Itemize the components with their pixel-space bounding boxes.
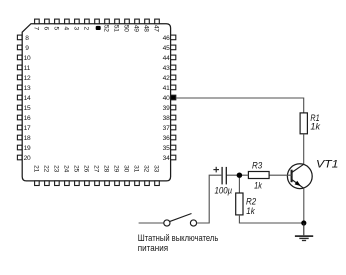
svg-text:питания: питания xyxy=(138,243,168,253)
svg-text:Штатный выключатель: Штатный выключатель xyxy=(138,233,219,243)
wire: open stub to switch xyxy=(139,222,164,224)
resistor R2 xyxy=(236,193,243,215)
svg-text:30: 30 xyxy=(123,165,130,172)
svg-text:46: 46 xyxy=(163,35,170,42)
bottom pin row: pins 21-33 xyxy=(35,181,160,186)
svg-text:36: 36 xyxy=(163,135,170,142)
svg-text:25: 25 xyxy=(73,165,80,172)
pin 1 index mark xyxy=(96,26,101,30)
pin numbers xyxy=(24,25,171,173)
svg-text:17: 17 xyxy=(24,125,31,132)
wire: node A down to R2 xyxy=(238,178,240,193)
svg-text:41: 41 xyxy=(163,85,170,92)
switch SA1 left contact xyxy=(164,220,170,226)
R3 labels xyxy=(252,160,263,191)
switch SA1 right contact xyxy=(190,220,196,226)
resistor R1 xyxy=(300,113,307,134)
svg-text:23: 23 xyxy=(53,165,60,172)
R1 value labels xyxy=(310,113,321,133)
IC U1 body (52-pin QFP outline) xyxy=(22,24,170,181)
svg-text:37: 37 xyxy=(163,125,170,132)
svg-text:13: 13 xyxy=(24,85,31,92)
svg-text:49: 49 xyxy=(133,25,140,32)
wire: R1 bottom to VT1 collector xyxy=(303,134,305,164)
svg-text:31: 31 xyxy=(133,165,140,172)
svg-text:21: 21 xyxy=(33,165,40,172)
svg-text:2: 2 xyxy=(83,27,90,31)
svg-text:10: 10 xyxy=(24,55,31,62)
wire: switch to capacitor rail xyxy=(197,175,223,223)
wire: pin 40 to R1 top xyxy=(176,98,304,113)
svg-text:VT1: VT1 xyxy=(316,159,339,171)
svg-text:1k: 1k xyxy=(246,206,255,217)
svg-text:14: 14 xyxy=(24,95,31,102)
svg-text:29: 29 xyxy=(113,165,120,172)
left pin column: pins 8-20 xyxy=(17,35,22,160)
svg-text:12: 12 xyxy=(24,75,31,82)
svg-text:19: 19 xyxy=(24,145,31,152)
svg-text:34: 34 xyxy=(163,155,170,162)
svg-text:11: 11 xyxy=(24,65,31,72)
ground symbol xyxy=(295,223,313,241)
svg-text:8: 8 xyxy=(25,35,29,42)
wire: VT1 emitter down to junction xyxy=(303,188,305,223)
R2 labels xyxy=(246,196,257,217)
svg-text:7: 7 xyxy=(33,27,40,31)
svg-text:R3: R3 xyxy=(252,160,263,171)
svg-text:43: 43 xyxy=(163,65,170,72)
svg-text:16: 16 xyxy=(24,115,31,122)
svg-text:44: 44 xyxy=(163,55,170,62)
svg-text:9: 9 xyxy=(25,45,29,52)
svg-text:32: 32 xyxy=(143,165,150,172)
capacitor C1 100u (polarized) xyxy=(222,167,226,185)
svg-text:20: 20 xyxy=(24,155,31,162)
svg-text:40: 40 xyxy=(163,95,170,102)
top pin row: pins 7,6,5,4,3,2,1,52,51,50,49,48,47 xyxy=(35,19,160,24)
svg-text:100µ: 100µ xyxy=(215,185,233,196)
svg-text:18: 18 xyxy=(24,135,31,142)
svg-text:24: 24 xyxy=(63,165,70,172)
node A junction dot xyxy=(237,172,243,178)
svg-text:28: 28 xyxy=(103,165,110,172)
svg-text:39: 39 xyxy=(163,105,170,112)
svg-text:50: 50 xyxy=(123,25,130,32)
svg-text:5: 5 xyxy=(53,27,60,31)
svg-text:26: 26 xyxy=(83,165,90,172)
svg-text:33: 33 xyxy=(153,165,160,172)
switch lever xyxy=(170,214,192,222)
transistor VT1 (NPN) xyxy=(287,164,312,189)
svg-text:27: 27 xyxy=(93,165,100,172)
svg-text:42: 42 xyxy=(163,75,170,82)
svg-text:3: 3 xyxy=(73,27,80,31)
right pin column: pins 46-34 (pin 40 filled) xyxy=(171,35,176,160)
svg-text:38: 38 xyxy=(163,115,170,122)
switch caption xyxy=(138,233,219,253)
wire: capacitor to node A to R3 xyxy=(226,174,248,176)
svg-text:51: 51 xyxy=(113,25,120,32)
svg-text:1k: 1k xyxy=(310,122,321,133)
svg-text:47: 47 xyxy=(153,25,160,32)
emitter junction dot xyxy=(301,220,306,225)
plus polarity mark xyxy=(213,167,219,173)
wire: R2 bottom to emitter junction xyxy=(239,215,302,223)
svg-text:35: 35 xyxy=(163,145,170,152)
svg-text:22: 22 xyxy=(43,165,50,172)
svg-text:15: 15 xyxy=(24,105,31,112)
resistor R3 xyxy=(248,172,269,179)
svg-text:52: 52 xyxy=(103,25,110,32)
svg-text:1k: 1k xyxy=(254,181,263,192)
svg-text:4: 4 xyxy=(63,27,70,31)
svg-text:45: 45 xyxy=(163,45,170,52)
wire: R3 to VT1 base xyxy=(269,174,292,176)
svg-text:48: 48 xyxy=(143,25,150,32)
svg-text:6: 6 xyxy=(43,27,50,31)
